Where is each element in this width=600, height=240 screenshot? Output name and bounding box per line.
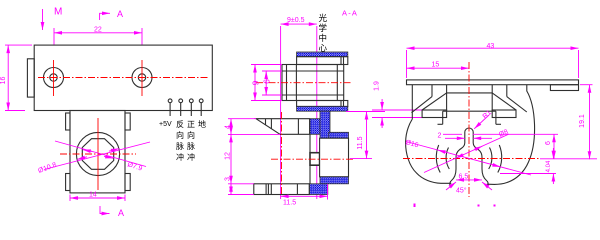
- svg-text:11.5: 11.5: [357, 136, 364, 149]
- svg-text:4.04: 4.04: [546, 160, 552, 172]
- svg-text:19.1: 19.1: [579, 114, 586, 128]
- red crosshair bottom view: [60, 118, 136, 190]
- svg-text:A-A: A-A: [342, 9, 358, 18]
- svg-text:6: 6: [545, 141, 552, 145]
- tab bottom-left: [66, 174, 70, 191]
- dimension 11.5 bottom: [281, 184, 328, 207]
- dimension 9 left: [251, 65, 283, 101]
- svg-text:冲: 冲: [176, 152, 184, 162]
- svg-text:光: 光: [319, 13, 328, 23]
- top arm hatch: [329, 132, 349, 138]
- dia 8 leader: [424, 129, 509, 173]
- sensor body: [70, 111, 125, 193]
- svg-text:2: 2: [438, 133, 442, 140]
- dimension 43: [407, 43, 579, 78]
- optical center text: [319, 13, 328, 53]
- svg-text:+5V: +5V: [159, 121, 172, 128]
- inner octagon: [82, 139, 113, 170]
- svg-text:正: 正: [187, 120, 195, 129]
- bore arc right outer: [498, 145, 502, 173]
- svg-text:3: 3: [225, 177, 232, 181]
- tab bottom-right: [125, 174, 130, 191]
- dimension 45 deg: [446, 182, 492, 195]
- dimension 1.9 left of right view: [372, 81, 429, 128]
- dimension 9+-0.5: [281, 17, 317, 24]
- hatched strip 1: [297, 52, 348, 57]
- section arrow A top: [100, 9, 123, 20]
- red centerline upper cylinder: [256, 82, 352, 84]
- svg-text:脉: 脉: [187, 141, 195, 151]
- white band 2: [297, 101, 348, 107]
- bore arc right inner: [489, 148, 492, 170]
- under plate structure: [412, 85, 527, 125]
- svg-text:冲: 冲: [187, 152, 195, 162]
- lower body bottom band: [254, 184, 309, 195]
- dimension 19.1: [579, 85, 593, 160]
- terminal pins: [168, 99, 203, 116]
- outer circle: [76, 132, 119, 175]
- dimension 15: [407, 62, 470, 69]
- tab top-left: [66, 113, 70, 130]
- svg-text:1.9: 1.9: [374, 81, 381, 91]
- bottom arm hatch: [320, 177, 349, 184]
- svg-text:中: 中: [319, 33, 328, 43]
- svg-text:14: 14: [89, 192, 97, 199]
- section arrow A bottom: [100, 206, 124, 218]
- svg-text:22: 22: [94, 27, 102, 34]
- hole 1: [44, 68, 64, 88]
- hole 2: [132, 68, 152, 88]
- red axis lower body: [271, 112, 355, 196]
- svg-text:45°: 45°: [456, 187, 467, 195]
- svg-text:A: A: [117, 9, 123, 19]
- extension line left axis: [280, 26, 282, 199]
- stray datum marks: [414, 204, 496, 208]
- svg-text:6: 6: [262, 79, 272, 84]
- svg-text:11.5: 11.5: [283, 200, 296, 207]
- dimension 6 left: [262, 71, 283, 95]
- dimension 16: [0, 45, 32, 110]
- tab top-right: [125, 113, 130, 130]
- red centerlines top view: [38, 60, 208, 96]
- svg-text:地: 地: [198, 119, 206, 129]
- dimension 22: [54, 27, 142, 45]
- pin labels: [159, 119, 206, 162]
- gap right wall: [309, 134, 311, 184]
- dia 10.8 leader: [37, 142, 150, 175]
- svg-text:4: 4: [225, 125, 232, 129]
- lower body top band with chamfer: [256, 119, 310, 135]
- dia 7.9 leader: [55, 141, 146, 173]
- svg-text:心: 心: [319, 43, 328, 53]
- dimension 11.5 right: [346, 112, 385, 159]
- svg-text:A: A: [118, 208, 124, 218]
- svg-text:43: 43: [487, 43, 495, 50]
- dimension 6 right: [443, 134, 558, 159]
- svg-text:反: 反: [176, 119, 184, 129]
- red centerlines right view: [403, 62, 597, 197]
- bore arc left inner: [446, 148, 449, 170]
- dimension 6.5: [456, 174, 482, 181]
- dimension 4.04: [500, 148, 556, 184]
- svg-text:脉: 脉: [176, 141, 184, 151]
- svg-text:9±0.5: 9±0.5: [287, 17, 305, 24]
- shaft end square: [310, 153, 320, 166]
- svg-text:16: 16: [0, 77, 7, 85]
- dimension 12: [225, 134, 232, 183]
- hatched block right of top band: [310, 119, 320, 135]
- left tab: [27, 59, 34, 97]
- dimension 4: [225, 119, 281, 135]
- keyhole slot: [450, 128, 488, 186]
- dimension 3: [225, 177, 254, 195]
- svg-text:向: 向: [187, 130, 195, 140]
- upper cylinder block: [282, 65, 344, 101]
- svg-text:9: 9: [251, 80, 261, 85]
- right under-plate notch: [550, 85, 578, 91]
- extension line optical center: [316, 26, 318, 199]
- dimension 14: [70, 192, 125, 202]
- svg-text:12: 12: [225, 152, 232, 160]
- svg-text:学: 学: [319, 23, 328, 33]
- svg-text:6.5: 6.5: [459, 174, 469, 181]
- bore arc left outer: [436, 145, 440, 173]
- dimension 2: [438, 133, 493, 140]
- white band 1: [297, 57, 348, 65]
- bearing block white: [320, 138, 349, 177]
- main housing rectangle: [34, 45, 212, 110]
- R1 leader: [474, 109, 493, 129]
- svg-text:向: 向: [176, 130, 184, 140]
- body outline: [406, 85, 535, 185]
- svg-text:15: 15: [432, 62, 440, 69]
- hatched strip 2: [297, 106, 348, 111]
- svg-text:M: M: [54, 7, 62, 18]
- code wheel bar hatch: [320, 111, 330, 138]
- mounting plate: [407, 80, 579, 85]
- bottom hatch block: [309, 184, 328, 195]
- dia 16 leader: [404, 139, 531, 175]
- marker M label: [43, 7, 63, 31]
